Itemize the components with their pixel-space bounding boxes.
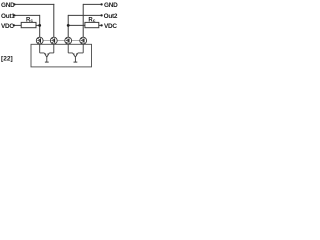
wire resistor right to collector node: [68, 24, 85, 26]
resistor Rc right body: [85, 22, 99, 27]
wire Out2 horizontal: [68, 14, 101, 16]
wire base interconnect 3-4: [72, 40, 80, 42]
wire right pair emitter bars: [68, 52, 83, 54]
node VDC right terminal dot: [100, 24, 102, 26]
left tail current-source bar: [45, 61, 49, 63]
junction dot Out1/Rc node: [38, 24, 41, 27]
svg-text:VDC: VDC: [1, 23, 14, 30]
wire VDC left to resistor: [15, 24, 21, 26]
right tail current-source bar: [74, 61, 78, 63]
svg-text:GND: GND: [1, 2, 15, 9]
wire Out1 vertical to Q1: [39, 15, 41, 38]
wire GND left horizontal: [16, 3, 55, 5]
wire resistor right to VDC terminal: [99, 24, 101, 26]
svg-text:Out1: Out1: [1, 13, 15, 20]
node GND left terminal dot: [13, 3, 15, 5]
wire Q1 emitter stub: [39, 44, 41, 53]
transistor Q1: [36, 37, 43, 44]
wire right pair emitter diagonals: [73, 53, 79, 57]
svg-text:Out2: Out2: [104, 13, 118, 20]
wire GND left vertical to Q2: [53, 4, 55, 38]
transistor Q2: [50, 37, 57, 44]
svg-text:GND: GND: [104, 2, 118, 9]
wire Q4 emitter stub: [82, 44, 84, 53]
wire right tail: [74, 57, 76, 62]
wire GND right vertical to Q4: [82, 4, 84, 38]
node GND right terminal dot: [100, 3, 102, 5]
resistor Rc left body: [21, 22, 36, 27]
node Out2 terminal dot: [100, 14, 102, 16]
wire Out1 horizontal: [16, 14, 41, 16]
transistor Q3: [65, 37, 72, 44]
wire left tail: [46, 57, 48, 62]
wire GND right horizontal: [83, 3, 101, 5]
junction dot Out2/Rc node: [67, 24, 70, 27]
IC box outline: [31, 44, 92, 67]
emitter arrowheads left pair: [45, 53, 46, 55]
wire base interconnect 2-3: [57, 40, 64, 42]
wire base interconnect 1-2: [43, 40, 50, 42]
transistor Q4: [80, 37, 87, 44]
node Out1 terminal dot: [13, 14, 15, 16]
node VDC left terminal dot: [13, 24, 15, 26]
wire resistor left to collector node: [36, 24, 40, 26]
wire Q2 emitter stub: [53, 44, 55, 53]
emitter arrowheads right pair: [73, 53, 74, 55]
wire left pair emitter diagonals: [44, 53, 49, 57]
svg-text:[22]: [22]: [1, 56, 13, 63]
wire Out2 vertical to Q3: [67, 15, 69, 38]
wire left pair emitter bars: [40, 52, 54, 54]
wire Q3 emitter stub: [67, 44, 69, 53]
svg-text:VDC: VDC: [104, 23, 117, 30]
